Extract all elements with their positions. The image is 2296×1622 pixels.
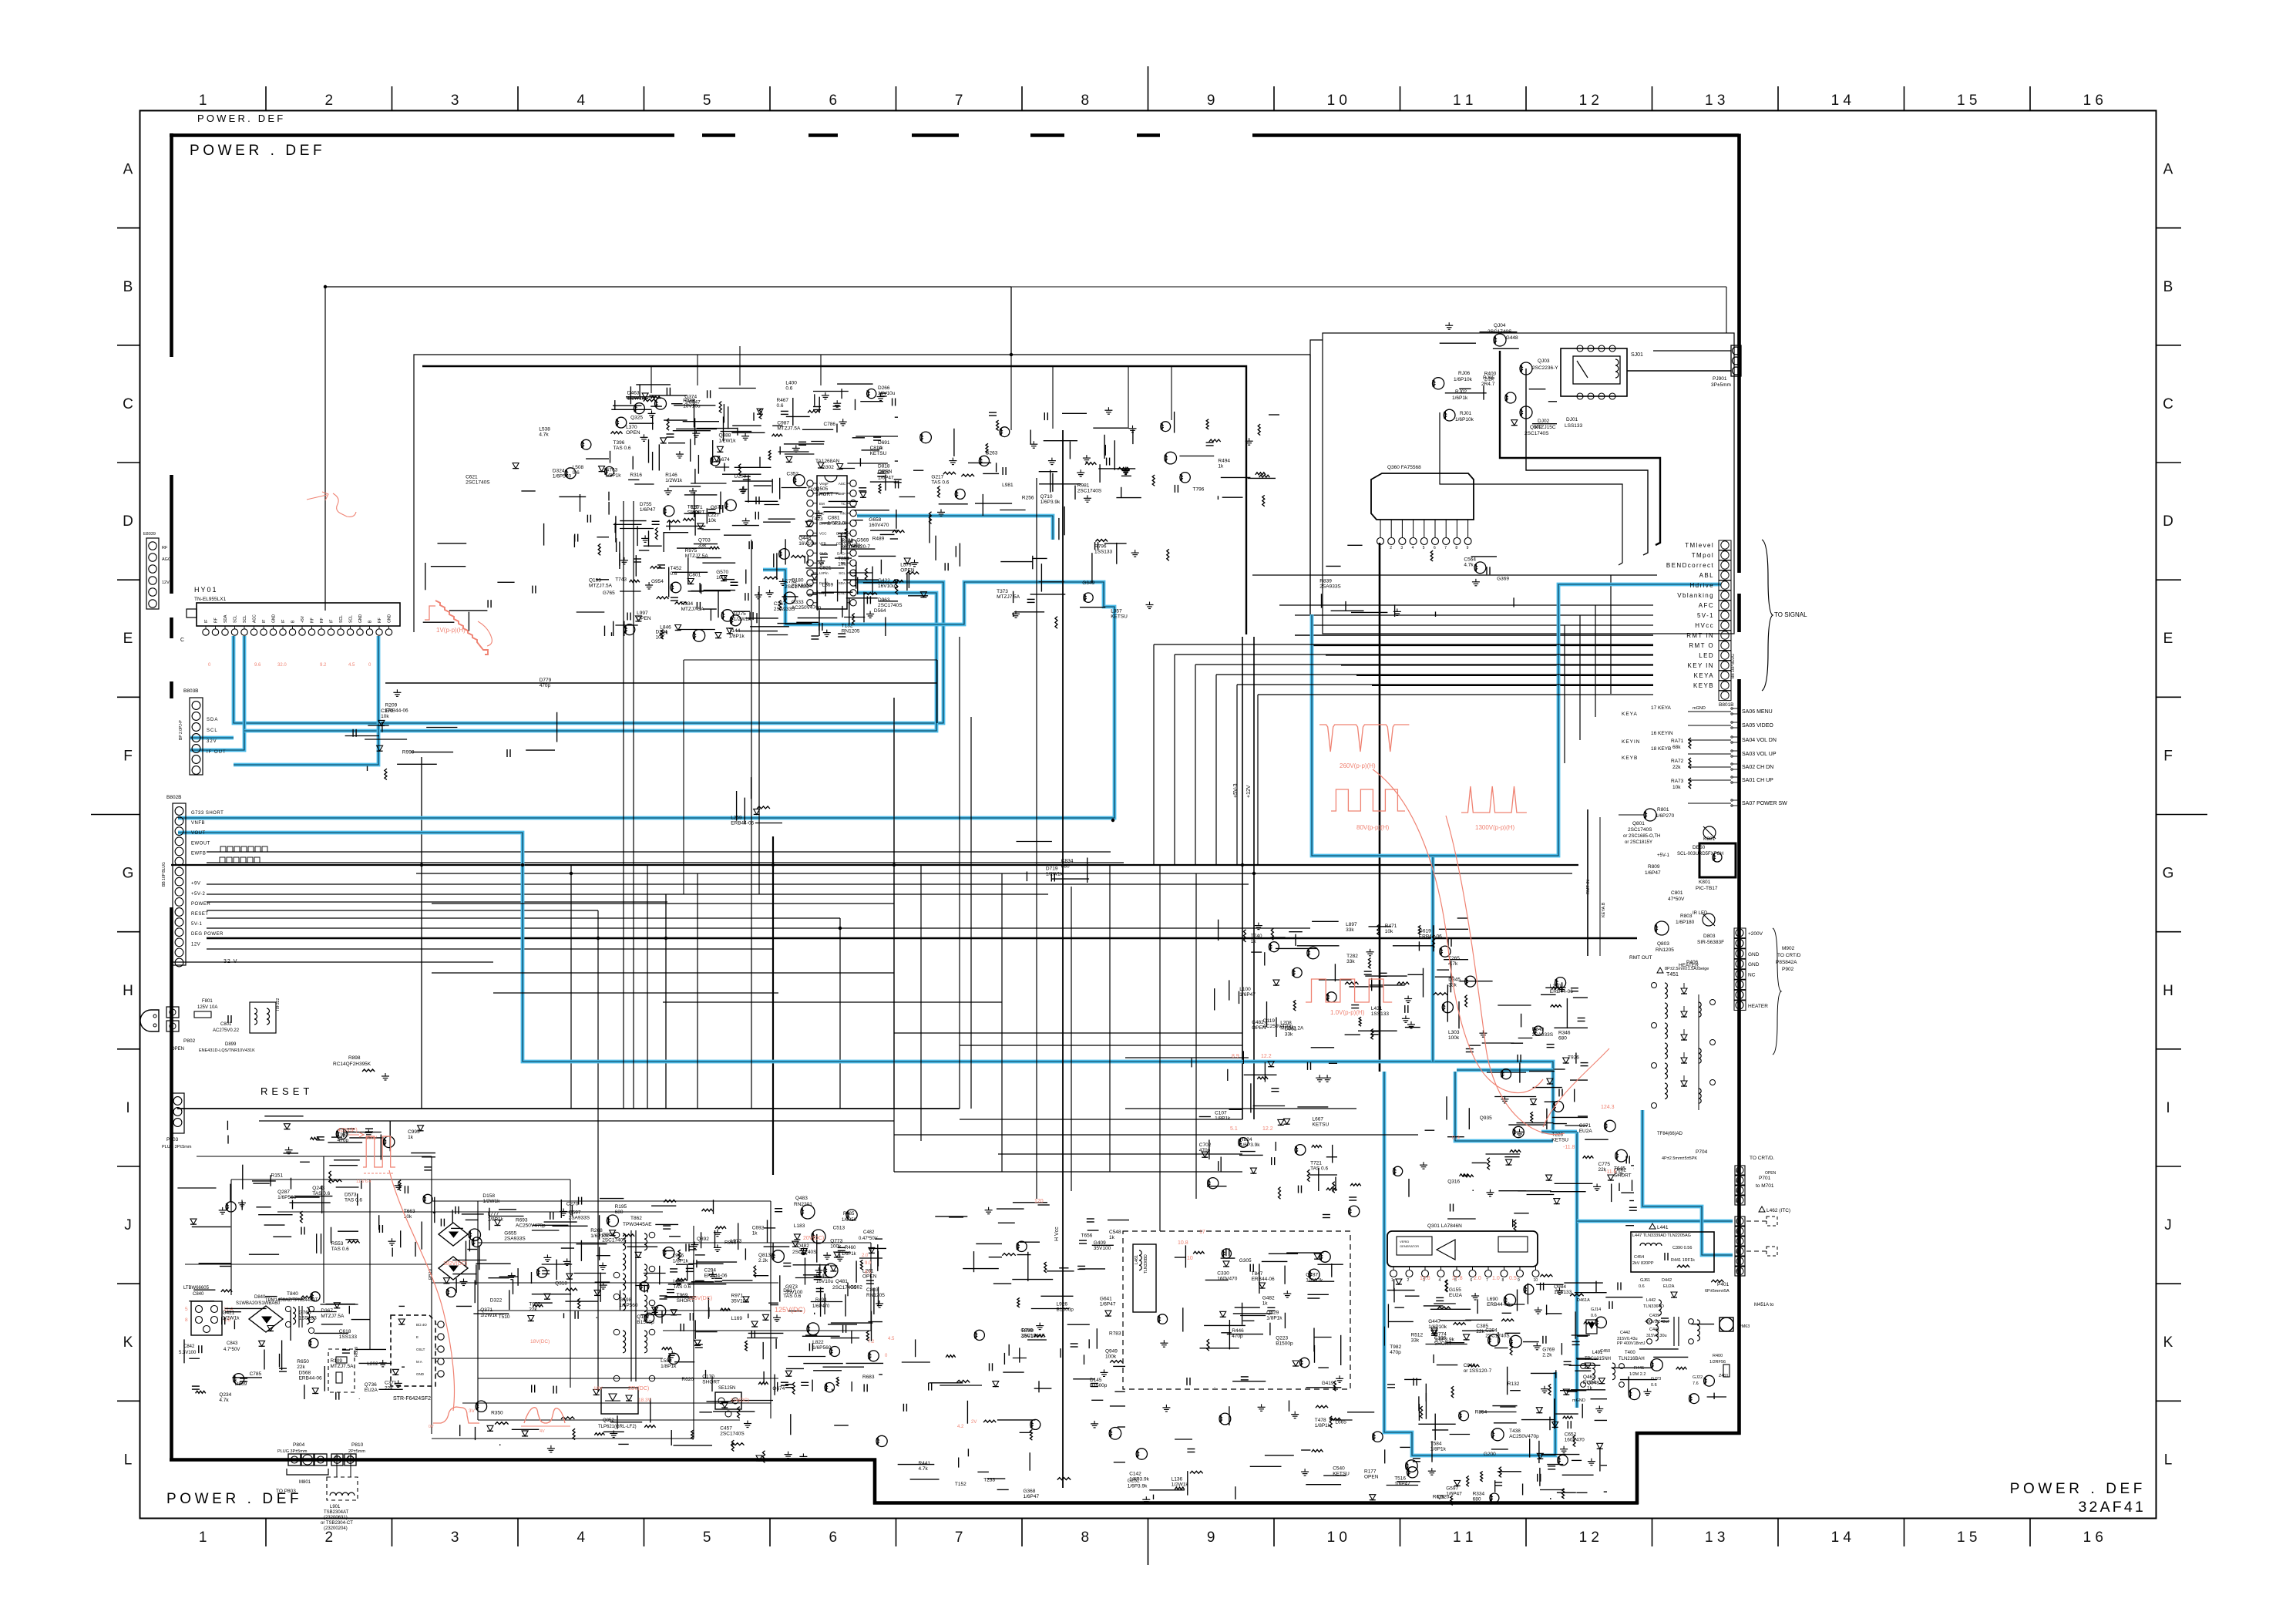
svg-text:EU2A: EU2A (365, 1388, 378, 1393)
svg-text:10k: 10k (1385, 929, 1393, 934)
svg-text:47*50V: 47*50V (1668, 897, 1685, 902)
svg-text:1SS133: 1SS133 (1371, 1011, 1390, 1017)
svg-text:+9V: +9V (191, 882, 200, 887)
svg-text:GJ22: GJ22 (1693, 1375, 1703, 1380)
blue wire Hdrive route (1312, 584, 1721, 856)
svg-text:AC250V470p: AC250V470p (516, 1223, 546, 1229)
svg-text:D573: D573 (345, 1193, 357, 1198)
svg-text:68k: 68k (1672, 745, 1681, 750)
svg-text:SA06 MENU: SA06 MENU (1742, 709, 1773, 715)
svg-text:C803: C803 (866, 1287, 879, 1293)
svg-text:Q193: Q193 (589, 577, 601, 583)
svg-text:Q223: Q223 (1276, 1336, 1288, 1341)
svg-text:POWER. DEF: POWER. DEF (197, 113, 285, 124)
wire enclosure FA block (1323, 333, 1734, 634)
svg-text:B: B (123, 279, 133, 295)
svg-text:TAS 0.6: TAS 0.6 (931, 480, 949, 485)
connector IF left of HY01 (143, 532, 171, 609)
svg-text:SHORT: SHORT (702, 1380, 720, 1385)
wire staircase AFC 5V-1 HVcc (1279, 605, 1653, 685)
svg-text:L822: L822 (812, 1340, 824, 1345)
svg-text:R898: R898 (348, 1055, 361, 1061)
svg-text:10: 10 (1534, 1278, 1538, 1283)
connector P803 (162, 1093, 192, 1149)
svg-text:OPEN: OPEN (637, 616, 651, 621)
svg-text:33k: 33k (1411, 1338, 1420, 1343)
svg-text:4: 4 (1439, 1278, 1441, 1283)
svg-text:0.47*50V: 0.47*50V (859, 1237, 878, 1241)
svg-text:IF: IF (330, 620, 334, 623)
svg-text:ERB44-06: ERB44-06 (1419, 934, 1442, 939)
svg-text:Vblanking: Vblanking (1677, 592, 1714, 599)
svg-text:AFC: AFC (1699, 602, 1714, 609)
svg-text:R803: R803 (1680, 914, 1693, 919)
svg-text:L897: L897 (1346, 922, 1357, 927)
svg-text:Hdrive: Hdrive (1689, 582, 1714, 589)
svg-text:GND: GND (1748, 962, 1760, 967)
svg-text:TF84(66)AD: TF84(66)AD (1657, 1132, 1683, 1136)
svg-text:QJ03: QJ03 (1538, 358, 1550, 364)
svg-text:L431: L431 (1371, 1006, 1383, 1011)
connector PJ901 (1627, 345, 1741, 388)
svg-text:Q505: Q505 (815, 486, 828, 492)
svg-text:T400: T400 (1625, 1351, 1635, 1355)
red small voltage texts (443, 1054, 1617, 1429)
svg-text:D322: D322 (490, 1298, 503, 1304)
svg-text:D266: D266 (878, 385, 890, 391)
labels RJ (1452, 371, 1583, 430)
svg-text:IF: IF (204, 620, 209, 623)
svg-text:KETSU: KETSU (1333, 1471, 1350, 1476)
svg-text:C618: C618 (339, 1329, 351, 1334)
svg-text:5: 5 (703, 1529, 711, 1546)
svg-text:1: 1 (1379, 546, 1381, 550)
svg-text:C371: C371 (385, 1381, 397, 1386)
svg-text:Q301 LA7846N: Q301 LA7846N (1427, 1223, 1462, 1229)
svg-text:5: 5 (1423, 546, 1425, 550)
svg-text:D345: D345 (1448, 977, 1461, 982)
svg-text:TAS 0.6: TAS 0.6 (613, 446, 631, 451)
svg-text:260V(p-p)(H): 260V(p-p)(H) (1340, 762, 1376, 769)
bridge rectifier RB10 upper (439, 1223, 468, 1246)
svg-text:22k: 22k (529, 1307, 537, 1313)
svg-text:1SS133: 1SS133 (339, 1334, 358, 1340)
svg-text:2.2k: 2.2k (1484, 376, 1494, 382)
svg-text:P8S842A: P8S842A (1776, 960, 1797, 965)
svg-text:IF: IF (281, 620, 286, 623)
svg-text:G769: G769 (1542, 1347, 1555, 1352)
svg-text:SA05 VIDEO: SA05 VIDEO (1742, 723, 1773, 729)
svg-text:124.3: 124.3 (1601, 1105, 1615, 1110)
svg-text:T584: T584 (1430, 1442, 1442, 1447)
svg-text:SA07 POWER SW: SA07 POWER SW (1742, 801, 1787, 806)
svg-text:4.2: 4.2 (957, 1425, 964, 1429)
blue wire Hdrive branch vertical (1431, 857, 1435, 1062)
svg-text:12V: 12V (191, 942, 200, 947)
svg-text:C840: C840 (193, 1292, 204, 1297)
ruler ticks right (2156, 228, 2208, 1402)
svg-text:SDA: SDA (224, 614, 228, 623)
AC inlet and line filter (140, 998, 281, 1053)
schematic border bottom-right notch (1635, 1432, 1741, 1504)
ruler ticks top (266, 66, 2030, 111)
wire psu top rail (177, 1108, 960, 1109)
svg-text:R268: R268 (590, 1228, 603, 1233)
red waveform 260V (1319, 725, 1409, 769)
wire staircase ABL (1252, 574, 1657, 576)
svg-text:1 5: 1 5 (1957, 1529, 1977, 1546)
svg-text:R195: R195 (615, 1204, 627, 1210)
wire FA75568 pin1 drop (1379, 543, 1381, 1072)
middle mesh vertical wires rows H-J (624, 478, 1196, 1231)
svg-text:L973: L973 (731, 1238, 742, 1243)
wire G113 long horizontal (385, 682, 937, 684)
svg-text:C142: C142 (1129, 1471, 1141, 1476)
svg-text:32AF41: 32AF41 (2079, 1499, 2146, 1516)
svg-text:R650: R650 (297, 1359, 309, 1365)
svg-text:6P±5mm±5A: 6P±5mm±5A (1705, 1289, 1730, 1294)
connector B801B TO SIGNAL (1666, 540, 1807, 711)
svg-text:G275: G275 (734, 611, 746, 617)
svg-text:Q374: Q374 (684, 394, 697, 399)
svg-text:Q703: Q703 (698, 538, 711, 543)
svg-text:A: A (123, 162, 133, 178)
svg-text:2SC1740S: 2SC1740S (785, 584, 809, 590)
svg-text:100k: 100k (1105, 1354, 1117, 1360)
component cluster: psu line input parts (184, 1292, 405, 1403)
svg-text:VCC: VCC (819, 532, 827, 536)
svg-text:Q949: Q949 (1105, 1349, 1118, 1354)
svg-text:1k: 1k (752, 1230, 758, 1236)
ruler ticks bottom (266, 1519, 2030, 1566)
svg-text:Q773: Q773 (830, 1239, 842, 1244)
svg-text:C: C (180, 638, 184, 643)
svg-text:C513: C513 (833, 1225, 845, 1230)
svg-text:T282: T282 (1346, 954, 1358, 959)
svg-text:7.2: 7.2 (868, 1340, 875, 1344)
red long curve A (1373, 769, 1543, 1093)
svg-text:+12V: +12V (1246, 785, 1252, 798)
svg-text:9: 9 (1207, 93, 1215, 109)
svg-text:R809: R809 (355, 1347, 359, 1357)
svg-text:P902: P902 (1782, 967, 1794, 972)
svg-text:680: 680 (615, 1210, 624, 1215)
svg-text:1/2W1k: 1/2W1k (1046, 871, 1064, 877)
svg-text:T132: T132 (842, 624, 853, 629)
svg-text:11.6 6.4: 11.6 6.4 (356, 1179, 371, 1184)
component cluster: right C449 T401 cluster (1447, 976, 1588, 1129)
IC LA7846N (1387, 1223, 1539, 1283)
svg-text:RJ06: RJ06 (1458, 371, 1471, 376)
svg-text:10k: 10k (381, 714, 389, 719)
svg-text:HY01: HY01 (194, 586, 218, 594)
svg-text:2kV 820PP: 2kV 820PP (1632, 1261, 1654, 1266)
svg-text:125V 10A: 125V 10A (197, 1005, 217, 1010)
svg-text:160V470: 160V470 (1217, 1277, 1237, 1282)
svg-text:20V(DC): 20V(DC) (628, 1386, 649, 1391)
svg-text:2SA933S: 2SA933S (569, 1215, 590, 1220)
svg-text:470p: 470p (1232, 1334, 1243, 1339)
component cluster: left low-voltage D473 (193, 1264, 232, 1292)
connector C840 with red voltages (179, 1286, 240, 1355)
key switch rows SA01-SA07 (1622, 705, 1787, 806)
svg-text:TLN216BAH: TLN216BAH (1619, 1357, 1645, 1361)
svg-text:300V: 300V (366, 1136, 377, 1141)
svg-text:(23200204): (23200204) (324, 1526, 348, 1531)
svg-text:E: E (2163, 631, 2173, 647)
svg-text:1/8P1k: 1/8P1k (1215, 1116, 1231, 1122)
svg-text:LSS133: LSS133 (1565, 423, 1583, 429)
svg-text:T423: T423 (812, 517, 823, 522)
row letters left (123, 162, 134, 1469)
svg-text:D158: D158 (482, 1193, 495, 1199)
wire verticals dropping to power supply (422, 698, 894, 1391)
component cluster: LA7846N surroundings (1384, 1274, 1607, 1505)
svg-text:34: 34 (1736, 1200, 1740, 1204)
svg-text:2SC1740S: 2SC1740S (1525, 431, 1549, 436)
svg-text:R441: R441 (919, 1461, 931, 1466)
svg-text:KEYIN: KEYIN (1622, 739, 1641, 745)
svg-text:R445: R445 (1634, 1366, 1644, 1371)
svg-text:D779: D779 (540, 678, 552, 683)
svg-text:E8039: E8039 (143, 532, 156, 537)
svg-text:8: 8 (1736, 1250, 1738, 1255)
svg-text:G982: G982 (850, 1284, 862, 1290)
blue wire staircase to pin7 (1541, 1130, 1577, 1134)
svg-text:C371: C371 (1579, 1123, 1592, 1129)
svg-text:1 0: 1 0 (1327, 93, 1347, 109)
svg-text:1 1: 1 1 (1453, 93, 1473, 109)
svg-text:Q243: Q243 (312, 1186, 324, 1191)
svg-text:P401: P401 (1717, 1282, 1730, 1287)
svg-text:2SC1740S: 2SC1740S (1077, 489, 1102, 494)
svg-text:R471: R471 (1385, 924, 1397, 929)
svg-text:TO CRT/D.: TO CRT/D. (1750, 1156, 1774, 1161)
svg-text:R132: R132 (1508, 1381, 1520, 1387)
svg-text:VregF: VregF (819, 482, 829, 486)
svg-text:1 6: 1 6 (2083, 1529, 2103, 1546)
svg-text:GND: GND (416, 1372, 425, 1376)
svg-text:G597: G597 (1446, 1486, 1458, 1491)
svg-text:GND: GND (272, 614, 277, 624)
component cluster: C115 C117 filter right of HY01 (345, 678, 557, 779)
svg-text:8: 8 (1081, 93, 1090, 109)
svg-text:3: 3 (1400, 546, 1403, 550)
svg-text:100k: 100k (1448, 1035, 1460, 1041)
svg-text:2: 2 (1407, 1278, 1410, 1283)
svg-text:G305: G305 (1239, 1258, 1252, 1264)
transformer T862 (613, 1216, 655, 1381)
svg-text:1/2M 2.2: 1/2M 2.2 (1629, 1372, 1646, 1377)
svg-text:1/2W1k: 1/2W1k (719, 438, 737, 443)
IC Q360 FA75568 block (1371, 465, 1474, 550)
svg-text:C267: C267 (774, 601, 786, 607)
blue wire right bundle v2 (1455, 1072, 1553, 1141)
svg-text:G419: G419 (1322, 1381, 1334, 1386)
svg-text:Q803: Q803 (1657, 941, 1669, 947)
wire bus row C top-center (325, 286, 1011, 288)
svg-text:AC250V470p: AC250V470p (1263, 1024, 1293, 1029)
svg-text:1 4: 1 4 (1831, 93, 1852, 109)
svg-text:C390 0.56: C390 0.56 (1672, 1246, 1692, 1250)
connector P810 on bottom border (331, 1442, 365, 1466)
svg-text:TSB2304AT: TSB2304AT (324, 1510, 349, 1515)
svg-text:POWER: POWER (191, 902, 210, 907)
svg-text:D442: D442 (1662, 1278, 1672, 1283)
ruler ticks left (91, 228, 140, 1402)
svg-text:80V(p-p)(H): 80V(p-p)(H) (1356, 824, 1390, 831)
blue wire right horizontal (1457, 1068, 1553, 1072)
svg-text:D803: D803 (1703, 934, 1716, 939)
svg-text:B: B (2163, 279, 2173, 295)
svg-text:2SC1740S: 2SC1740S (466, 480, 490, 485)
svg-text:T840: T840 (287, 1291, 298, 1297)
svg-text:L357: L357 (1111, 608, 1122, 614)
red waveform 1.0V (1306, 979, 1392, 1016)
svg-text:P701: P701 (1759, 1176, 1771, 1181)
component cluster: psu primary bridges (435, 1193, 785, 1325)
svg-text:M801: M801 (299, 1480, 311, 1485)
svg-text:G619: G619 (1419, 928, 1431, 934)
svg-text:EU2A: EU2A (1449, 1293, 1463, 1298)
svg-text:1/2W1k: 1/2W1k (734, 617, 751, 622)
svg-text:C801: C801 (220, 1022, 232, 1027)
svg-text:9.2: 9.2 (320, 663, 327, 668)
svg-text:PLUG 3P±5mm: PLUG 3P±5mm (162, 1145, 192, 1149)
svg-text:C652: C652 (1565, 1432, 1577, 1437)
svg-text:C548: C548 (1109, 1230, 1121, 1235)
component cluster: mid-right deflection parts (1215, 918, 1468, 1041)
svg-text:M902: M902 (1782, 946, 1795, 951)
svg-text:19V: 19V (593, 1386, 603, 1391)
wire long bus row G1 (171, 864, 1578, 866)
red long curve B (1446, 816, 1565, 1135)
svg-text:G155: G155 (1449, 1287, 1461, 1293)
svg-text:VERID: VERID (1400, 1240, 1409, 1243)
svg-text:R467: R467 (777, 398, 789, 403)
svg-text:C482: C482 (863, 1230, 875, 1235)
wire right staircase to TMlevel (1500, 351, 1660, 545)
svg-text:Q360 FA75568: Q360 FA75568 (1387, 465, 1421, 470)
svg-text:Q801: Q801 (1632, 821, 1645, 826)
svg-text:PIC-TB17: PIC-TB17 (1696, 886, 1718, 891)
svg-text:LVPin: LVPin (819, 571, 829, 575)
svg-text:E: E (416, 1335, 419, 1339)
svg-text:C457: C457 (720, 1425, 732, 1431)
component cluster: below EW box parts (1128, 1401, 1383, 1504)
svg-text:2SC1740S: 2SC1740S (720, 1431, 745, 1436)
svg-text:C840: C840 (1464, 1363, 1476, 1368)
svg-text:+5V-1: +5V-1 (1657, 853, 1670, 858)
svg-text:16 KEYIN: 16 KEYIN (1651, 731, 1673, 736)
svg-text:ERB44-06: ERB44-06 (1252, 1277, 1275, 1282)
svg-text:470p: 470p (1390, 1350, 1401, 1355)
svg-text:0.6: 0.6 (1639, 1284, 1645, 1289)
svg-text:C: C (2163, 396, 2173, 412)
svg-text:2P±5mm: 2P±5mm (348, 1449, 365, 1454)
svg-text:B1500p: B1500p (1090, 1383, 1108, 1388)
svg-text:D324: D324 (553, 469, 565, 474)
svg-text:B1500p: B1500p (637, 1320, 654, 1325)
svg-text:R849: R849 (1532, 1027, 1545, 1032)
svg-text:4.5: 4.5 (348, 663, 355, 668)
svg-text:18V(DC): 18V(DC) (530, 1339, 550, 1344)
svg-text:2SC1740S: 2SC1740S (1485, 1334, 1510, 1339)
svg-text:C881: C881 (828, 516, 840, 521)
svg-text:D719: D719 (1046, 866, 1058, 871)
svg-text:Q674: Q674 (772, 1386, 785, 1391)
svg-text:8.9: 8.9 (1232, 1054, 1239, 1059)
svg-text:4: 4 (1412, 546, 1414, 550)
svg-text:1 0: 1 0 (1327, 1529, 1347, 1546)
svg-text:RN1205: RN1205 (1656, 947, 1674, 953)
component cluster: mid column resistors R484 R480 (920, 407, 1279, 506)
svg-text:D869: D869 (235, 1381, 247, 1387)
svg-text:C775: C775 (1598, 1162, 1611, 1167)
svg-text:T740: T740 (1251, 934, 1262, 939)
svg-text:1/8P1k: 1/8P1k (488, 1217, 504, 1223)
svg-text:0.6: 0.6 (1591, 1314, 1597, 1318)
svg-text:T152: T152 (955, 1482, 966, 1487)
svg-text:C294: C294 (1485, 1328, 1498, 1334)
svg-text:T510: T510 (499, 1314, 510, 1320)
svg-text:6: 6 (829, 93, 838, 109)
red waveform staircase near HY01 (425, 601, 492, 655)
svg-text:C786: C786 (824, 422, 836, 427)
svg-text:TAS 0.6: TAS 0.6 (1310, 1166, 1328, 1171)
svg-text:K801: K801 (1703, 836, 1716, 842)
svg-text:G649: G649 (1082, 580, 1094, 586)
svg-text:32.0: 32.0 (277, 663, 287, 668)
svg-text:SDA: SDA (839, 581, 845, 585)
component cluster: T401 drive cluster (1420, 1120, 1634, 1196)
svg-text:5.3V100: 5.3V100 (179, 1351, 197, 1355)
svg-text:K: K (2163, 1334, 2173, 1351)
svg-text:2.0: 2.0 (1474, 1276, 1481, 1281)
blue wire VOUT long route (178, 833, 1577, 1132)
svg-text:4.7k: 4.7k (219, 1398, 229, 1403)
svg-text:C439: C439 (1649, 1314, 1659, 1318)
svg-text:-11.8: -11.8 (1563, 1145, 1575, 1150)
svg-text:12: 12 (348, 1455, 352, 1460)
svg-text:KEYB: KEYB (1693, 682, 1714, 689)
svg-text:1V(p-p)(H): 1V(p-p)(H) (436, 627, 466, 634)
svg-text:TMlevel: TMlevel (1685, 542, 1714, 549)
svg-text:G760: G760 (299, 1310, 311, 1315)
svg-text:1/6P47: 1/6P47 (684, 399, 701, 405)
svg-text:1/6P3.9k: 1/6P3.9k (1040, 500, 1061, 505)
svg-text:TPW3445AE: TPW3445AE (623, 1222, 652, 1227)
svg-text:Q813: Q813 (758, 1253, 771, 1258)
svg-text:K801: K801 (1699, 880, 1711, 885)
svg-text:Q287: Q287 (277, 1190, 290, 1195)
svg-text:or 2SC1815Y: or 2SC1815Y (1625, 840, 1652, 845)
svg-text:RA72: RA72 (1671, 759, 1684, 764)
blue wire SDA route (190, 636, 244, 750)
svg-text:P804: P804 (293, 1442, 305, 1448)
svg-text:ENE431D-LQS/TNR10V431K: ENE431D-LQS/TNR10V431K (199, 1048, 255, 1053)
svg-text:RF: RF (311, 618, 315, 623)
svg-text:12V: 12V (162, 580, 170, 585)
svg-text:RJ01: RJ01 (1460, 411, 1472, 416)
svg-text:G733 SHORT: G733 SHORT (191, 811, 224, 816)
svg-text:TN-EL955LX1: TN-EL955LX1 (194, 597, 227, 602)
svg-text:ERB44-06: ERB44-06 (731, 821, 754, 826)
bottom-right LC cluster (1577, 1278, 1677, 1361)
svg-text:R109: R109 (331, 1358, 343, 1364)
red curve right tile (1543, 1048, 1609, 1127)
STR-F6424SF2 regulator (391, 1315, 444, 1402)
